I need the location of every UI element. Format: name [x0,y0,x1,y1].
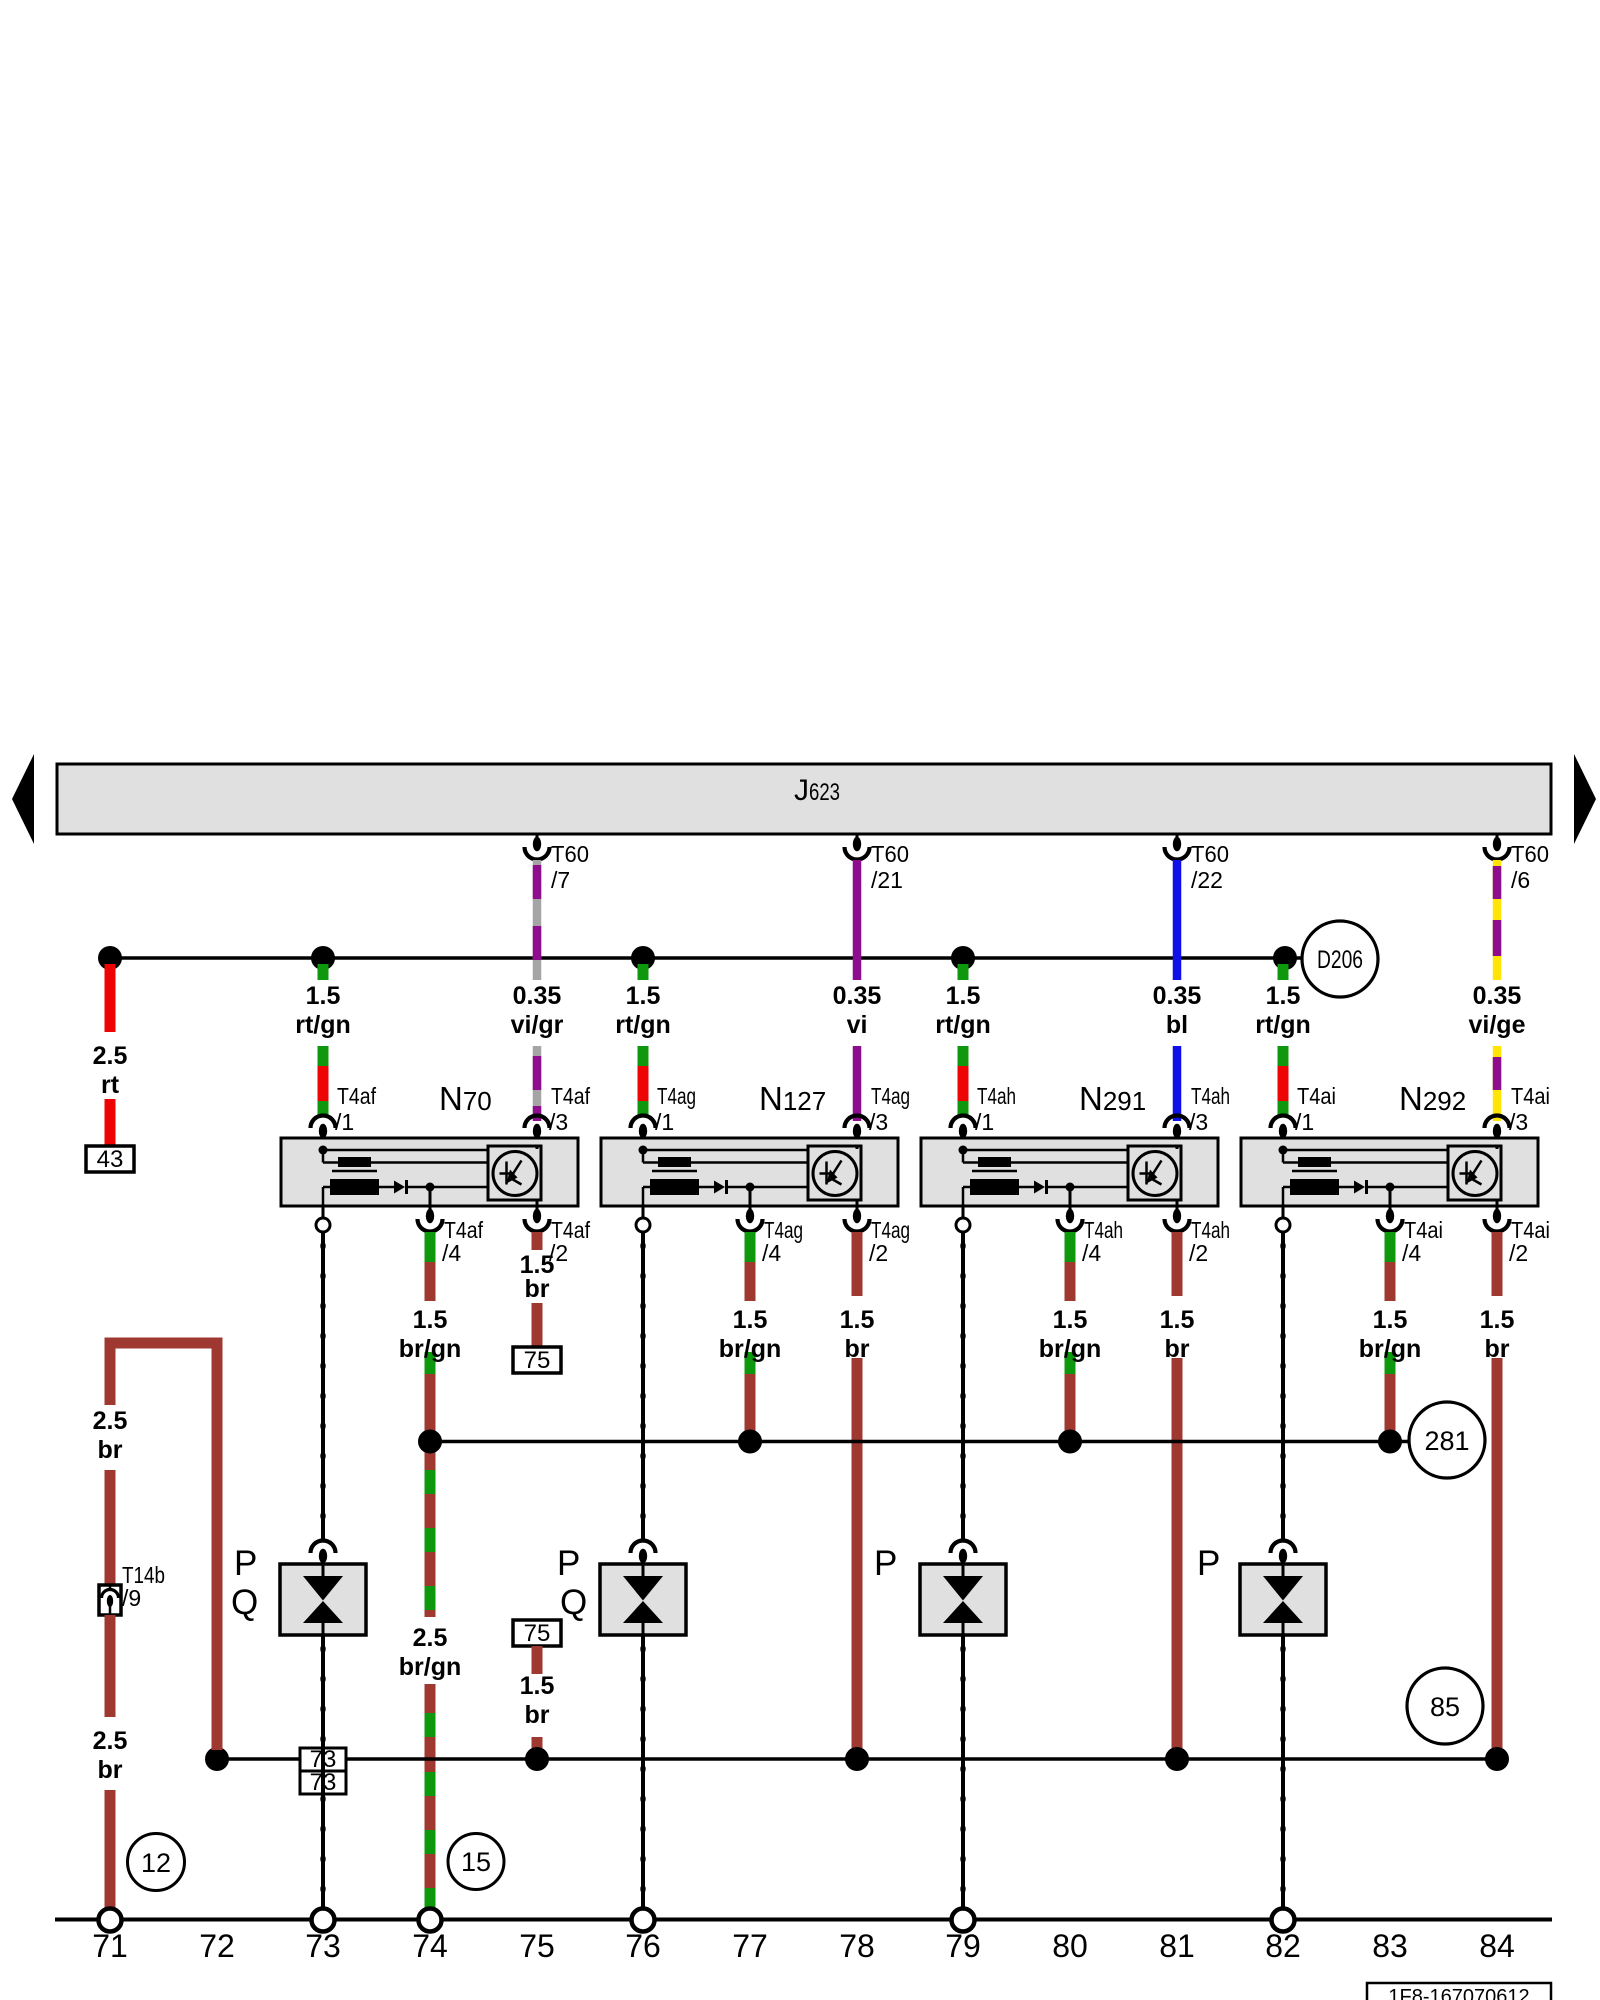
value label 1.5 br [840,1306,875,1363]
wire 30a supply line to D206 [110,956,1302,960]
wire 1.5 rt/gn at x=963 [958,964,969,1116]
svg-text:br/gn: br/gn [399,1335,462,1363]
svg-text:/4: /4 [1082,1240,1101,1266]
N292 internal junction [1386,1183,1395,1213]
track number 84 [1479,1928,1515,1964]
ignition coil N291 box [921,1138,1218,1206]
label P [874,1544,897,1583]
ground bus junction at x=857 [845,1747,869,1771]
node 12 [128,1834,185,1891]
connector T60/6 pin [1485,834,1510,860]
terminal 75 reference box upper [513,1347,561,1374]
N292 core [1292,1170,1337,1173]
svg-text:N291: N291 [1079,1080,1146,1117]
connector T4ah/3 pin [1165,1116,1190,1148]
svg-text:Q: Q [231,1583,258,1622]
label T14b/9 [122,1562,165,1611]
svg-text:rt: rt [101,1071,120,1099]
svg-text:2.5: 2.5 [93,1727,128,1755]
svg-text:N70: N70 [439,1080,492,1117]
N127 diode [714,1180,808,1194]
svg-text:Q: Q [560,1583,587,1622]
wire 1.5 rt/gn at x=323 [318,964,329,1116]
svg-text:N127: N127 [759,1080,826,1117]
diagram number box 1F8-167070612 [1367,1983,1551,2000]
wire 0.35 vi/gr [533,860,542,1121]
svg-text:rt/gn: rt/gn [615,1011,671,1039]
wire 2.5 br to ground 71 [105,1790,116,1908]
ignition cable to ground 4 [1280,1635,1285,1908]
svg-text:/2: /2 [1189,1240,1208,1266]
node 85 [1407,1668,1483,1744]
label T4ag/1 [655,1083,696,1135]
svg-text:/21: /21 [871,867,903,893]
connector T4af/4 pin [418,1209,443,1232]
ground point 74 [419,1909,442,1932]
track number 82 [1265,1928,1301,1964]
track number 74 [412,1928,448,1964]
svg-text:/2: /2 [869,1240,888,1266]
value label 1.5 br [1160,1306,1195,1363]
svg-text:/1: /1 [335,1109,354,1135]
label T4ag/3 [869,1083,910,1135]
connector T4ah/2 pin [1165,1209,1190,1232]
svg-text:1.5: 1.5 [1266,982,1301,1010]
N70 primary winding [319,1146,489,1168]
label P/Q [231,1544,258,1622]
svg-text:P: P [557,1544,580,1583]
N70 secondary winding [323,1179,394,1206]
label N70 [439,1080,492,1117]
track number 76 [625,1928,661,1964]
svg-text:J623: J623 [794,774,840,807]
svg-text:/6: /6 [1511,867,1530,893]
connector T14b/9 [99,1585,121,1615]
N291 internal junction [1066,1183,1075,1213]
connector T4ai/3 pin [1485,1116,1510,1148]
N70 diode [394,1180,488,1194]
svg-text:1.5: 1.5 [626,982,661,1010]
ground bus junction at x=217 [205,1747,229,1771]
svg-text:/22: /22 [1191,867,1223,893]
ignition cable from coil 1 [320,1232,325,1539]
junction on 281 line at x=430 [418,1430,442,1454]
svg-text:75: 75 [524,1620,551,1647]
wire 1.5 br at x=1177 to ground bus [1172,1232,1183,1750]
svg-text:/9: /9 [122,1585,141,1611]
svg-text:br/gn: br/gn [399,1653,462,1681]
connector T60/22 pin [1165,834,1190,860]
svg-text:281: 281 [1424,1426,1469,1456]
svg-text:81: 81 [1159,1928,1195,1964]
svg-text:83: 83 [1372,1928,1408,1964]
label P/Q [557,1544,587,1622]
junction on 281 line at x=750 [738,1430,762,1454]
svg-text:T4ag: T4ag [657,1083,696,1109]
svg-text:T4ah: T4ah [977,1083,1016,1109]
value label 0.35 vi/ge [1469,982,1526,1039]
svg-text:1.5: 1.5 [840,1306,875,1334]
wire 1.5 br/gn at x=1070 [1065,1232,1076,1432]
junction at x71 [98,946,122,970]
label N291 [1079,1080,1146,1117]
svg-text:0.35: 0.35 [513,982,562,1010]
svg-text:bl: bl [1166,1011,1188,1039]
wire 2.5 br below T14b [105,1615,116,1717]
track number 80 [1052,1928,1088,1964]
ground point 71 [99,1909,122,1932]
N292 primary winding [1279,1146,1449,1168]
wire 1.5 br/gn at x=750 [745,1232,756,1432]
svg-text:br: br [98,1436,123,1464]
ignition coil N127 box [601,1138,898,1206]
value label 1.5 br/gn [1359,1306,1422,1363]
connector T4ai/4 pin [1378,1209,1403,1232]
connector T60/21 pin [845,834,870,860]
track number 79 [945,1928,981,1964]
N291 high-voltage output pin [956,1206,970,1232]
N127 secondary winding [643,1179,714,1206]
svg-text:P: P [1197,1544,1220,1583]
ignition cable to ground 1 [320,1635,325,1908]
track number 73 [305,1928,341,1964]
svg-text:T4af: T4af [551,1083,591,1109]
spark plug connector P4 [1271,1541,1296,1565]
svg-text:1.5: 1.5 [733,1306,768,1334]
svg-text:1.5: 1.5 [1373,1306,1408,1334]
N127 internal junction [746,1183,755,1213]
svg-text:vi/ge: vi/ge [1469,1011,1526,1039]
svg-text:/4: /4 [1402,1240,1421,1266]
value label 1.5 rt/gn [1255,982,1311,1039]
connector T4ag/2 pin [845,1209,870,1232]
wire 1.5 br/gn (T4af/4) / 2.5 br/gn to ground 74 [425,1232,436,1909]
svg-text:82: 82 [1265,1928,1301,1964]
connector T4ah/4 pin [1058,1209,1083,1232]
svg-text:1.5: 1.5 [946,982,981,1010]
value label 1.5 rt/gn [295,982,351,1039]
wire 2.5 br ground strap top run [105,1338,223,1406]
svg-text:P: P [234,1544,257,1583]
node D206 [1302,921,1378,997]
value label 1.5 br [520,1672,555,1729]
svg-text:80: 80 [1052,1928,1088,1964]
label T4ai/4 [1402,1217,1443,1266]
svg-text:1.5: 1.5 [1053,1306,1088,1334]
spark plug connector P2 [631,1541,656,1565]
svg-text:/3: /3 [1509,1109,1528,1135]
N127 core [652,1170,697,1173]
svg-text:br: br [1485,1335,1510,1363]
wire 2.5 br through T14b [105,1470,116,1585]
junction on 281 line at x=1070 [1058,1430,1082,1454]
connection 73 reference boxes [300,1746,346,1796]
svg-text:/3: /3 [869,1109,888,1135]
svg-text:1.5: 1.5 [306,982,341,1010]
wire 1.5 br at x=1497 to ground bus [1492,1232,1503,1750]
svg-text:75: 75 [524,1347,551,1374]
svg-text:1.5: 1.5 [1160,1306,1195,1334]
value label 1.5 rt/gn [615,982,671,1039]
svg-text:/1: /1 [655,1109,674,1135]
svg-text:br/gn: br/gn [1039,1335,1102,1363]
connector T4af/2 pin [525,1209,550,1232]
svg-text:D206: D206 [1317,946,1363,974]
label T4ah/3 [1189,1083,1230,1135]
svg-text:76: 76 [625,1928,661,1964]
ground point 76 [632,1909,655,1932]
ground point 79 [952,1909,975,1932]
svg-text:2.5: 2.5 [413,1624,448,1652]
ignition cable from coil 3 [960,1232,965,1539]
svg-text:br/gn: br/gn [1359,1335,1422,1363]
label T60/21 [871,841,909,893]
junction at x76 [631,946,655,970]
connector T4ah/1 pin [951,1116,976,1151]
svg-text:rt/gn: rt/gn [295,1011,351,1039]
N291 primary winding [959,1146,1129,1168]
ignition cable from coil 2 [640,1232,645,1539]
svg-text:br: br [98,1756,123,1784]
ground reference line [55,1918,1552,1922]
label T4af/2 [549,1217,591,1266]
svg-text:T60: T60 [1511,841,1549,867]
label T4af/4 [442,1217,484,1266]
svg-text:rt/gn: rt/gn [935,1011,991,1039]
N127 output stage [808,1146,861,1212]
spark plug Q3 box [920,1564,1006,1635]
ignition coil N292 box [1241,1138,1538,1206]
connector T60/7 pin [525,834,550,860]
wire 1.5 br (T4af/2) to terminal 75 [532,1232,543,1347]
track number 83 [1372,1928,1408,1964]
spark plug connector P1 [311,1541,336,1565]
label T60/7 [551,841,589,893]
svg-text:br: br [1165,1335,1190,1363]
ground point 73 [312,1909,335,1932]
svg-text:73: 73 [305,1928,341,1964]
label T4ah/2 [1189,1217,1230,1266]
svg-text:2.5: 2.5 [93,1042,128,1070]
value label 0.35 vi/gr [511,982,564,1039]
N70 output stage [488,1146,541,1212]
ground bus junction at x=1177 [1165,1747,1189,1771]
svg-text:vi: vi [847,1011,868,1039]
label P [1197,1544,1220,1583]
svg-text:78: 78 [839,1928,875,1964]
label T4ai/1 [1295,1083,1336,1135]
svg-text:1.5: 1.5 [520,1672,555,1700]
svg-text:/1: /1 [975,1109,994,1135]
spark plug Q1 box [280,1564,366,1635]
value label 1.5 br [520,1251,555,1303]
svg-text:43: 43 [97,1146,124,1173]
continuation arrow right [1574,754,1596,844]
svg-text:71: 71 [92,1928,128,1964]
N127 high-voltage output pin [636,1206,650,1232]
N291 output stage [1128,1146,1181,1212]
value label 1.5 rt/gn [935,982,991,1039]
svg-text:1.5: 1.5 [413,1306,448,1334]
svg-text:/3: /3 [549,1109,568,1135]
svg-text:15: 15 [461,1847,491,1877]
label T4ag/4 [762,1217,803,1266]
wire 0.35 vi/ge [1493,860,1502,1121]
svg-text:/2: /2 [1509,1240,1528,1266]
N291 secondary winding [963,1179,1034,1206]
svg-text:79: 79 [945,1928,981,1964]
ECM control unit J623 bus bar [57,764,1551,834]
svg-text:T4af: T4af [337,1083,377,1109]
label T4ag/2 [869,1217,910,1266]
connector T4ai/2 pin [1485,1209,1510,1232]
junction at x82 [1273,946,1297,970]
label N292 [1399,1080,1466,1117]
svg-text:84: 84 [1479,1928,1515,1964]
ground bus wire [217,1757,1497,1761]
label T60/22 [1191,841,1229,893]
N291 core [972,1170,1017,1173]
junction at x73 [311,946,335,970]
connector T4ag/4 pin [738,1209,763,1232]
svg-text:12: 12 [141,1848,171,1878]
label J623 [794,774,840,807]
spark plug connector P3 [951,1541,976,1565]
svg-text:77: 77 [732,1928,768,1964]
track number 77 [732,1928,768,1964]
svg-text:br/gn: br/gn [719,1335,782,1363]
value label 2.5 br upper [93,1407,128,1464]
value label 1.5 br/gn [1039,1306,1102,1363]
N70 internal junction [426,1183,435,1213]
N70 core [332,1170,377,1173]
N70 high-voltage output pin [316,1206,330,1232]
svg-text:0.35: 0.35 [1153,982,1202,1010]
label T4ah/4 [1082,1217,1123,1266]
label T4ai/2 [1509,1217,1550,1266]
label T4af/1 [335,1083,377,1135]
svg-text:T60: T60 [1191,841,1229,867]
ignition cable through boxes [321,1748,325,1794]
value label 1.5 br/gn [719,1306,782,1363]
spark plug Q2 box [600,1564,686,1635]
label T60/6 [1511,841,1549,893]
wire junction line to node 281 [430,1440,1409,1444]
wire 2.5 rt (terminal 30 feed) [105,964,116,1146]
connector T4ag/1 pin [631,1116,656,1151]
N291 diode [1034,1180,1128,1194]
node 15 [448,1834,504,1890]
svg-text:75: 75 [519,1928,555,1964]
svg-text:br: br [525,1275,550,1303]
svg-text:T60: T60 [871,841,909,867]
connector T4af/1 pin [311,1116,336,1151]
svg-text:T4ai: T4ai [1511,1083,1550,1109]
svg-text:T4ai: T4ai [1297,1083,1336,1109]
wire 1.5 rt/gn at x=643 [638,964,649,1116]
label T4ah/1 [975,1083,1016,1135]
svg-text:/4: /4 [762,1240,781,1266]
track number 71 [92,1928,128,1964]
svg-text:rt/gn: rt/gn [1255,1011,1311,1039]
N292 high-voltage output pin [1276,1206,1290,1232]
terminal 43 reference box [86,1146,134,1173]
svg-text:0.35: 0.35 [1473,982,1522,1010]
N292 diode [1354,1180,1448,1194]
wire 1.5 br/gn at x=1390 [1385,1232,1396,1432]
terminal 75 reference box lower [513,1620,561,1647]
label T4af/3 [549,1083,591,1135]
label N127 [759,1080,826,1117]
track number 78 [839,1928,875,1964]
ignition coil N70 box [281,1138,578,1206]
N127 primary winding [639,1146,809,1168]
spark plug Q4 box [1240,1564,1326,1635]
ground bus junction at x=1497 [1485,1747,1509,1771]
wire 0.35 vi [853,860,862,1121]
track number 72 [199,1928,235,1964]
svg-text:72: 72 [199,1928,235,1964]
svg-text:2.5: 2.5 [93,1407,128,1435]
value label 1.5 br [1480,1306,1515,1363]
N292 output stage [1448,1146,1501,1212]
value label 2.5 br/gn [399,1624,462,1681]
svg-text:/4: /4 [442,1240,461,1266]
svg-text:P: P [874,1544,897,1583]
svg-text:T4ah: T4ah [1191,1083,1230,1109]
ground point 82 [1272,1909,1295,1932]
svg-text:T4ag: T4ag [871,1083,910,1109]
svg-text:85: 85 [1430,1692,1460,1722]
svg-text:T60: T60 [551,841,589,867]
wire 1.5 br at x=857 to ground bus [852,1232,863,1750]
wire 1.5 rt/gn at x=1283 [1278,964,1289,1116]
svg-text:N292: N292 [1399,1080,1466,1117]
svg-text:vi/gr: vi/gr [511,1011,564,1039]
ground bus junction at x=537 [525,1747,549,1771]
svg-text:br: br [525,1701,550,1729]
wire 0.35 bl [1173,860,1182,1121]
value label 2.5 rt [93,1042,128,1099]
value label 2.5 br lower [93,1727,128,1784]
track number 81 [1159,1928,1195,1964]
svg-text:/7: /7 [551,867,570,893]
junction at x79 [951,946,975,970]
N292 secondary winding [1283,1179,1354,1206]
value label 0.35 vi [833,982,882,1039]
svg-text:br: br [845,1335,870,1363]
ignition cable to ground 3 [960,1635,965,1908]
svg-text:74: 74 [412,1928,448,1964]
svg-text:0.35: 0.35 [833,982,882,1010]
label T4ai/3 [1509,1083,1550,1135]
svg-text:/1: /1 [1295,1109,1314,1135]
svg-text:1F8-167070612: 1F8-167070612 [1388,1986,1529,2000]
svg-text:1.5: 1.5 [1480,1306,1515,1334]
junction on 281 line at x=1390 [1378,1430,1402,1454]
value label 0.35 bl [1153,982,1202,1039]
value label 1.5 br/gn [399,1306,462,1363]
connector T4af/3 pin [525,1116,550,1148]
wire 2.5 br right leg to ground bus [212,1343,223,1750]
node 281 [1409,1402,1485,1478]
svg-text:/3: /3 [1189,1109,1208,1135]
ignition cable to ground 2 [640,1635,645,1908]
wire 1.5 br from terminal 75 to ground bus [532,1646,543,1751]
connector T4ai/1 pin [1271,1116,1296,1151]
ignition cable from coil 4 [1280,1232,1285,1539]
track number 75 [519,1928,555,1964]
